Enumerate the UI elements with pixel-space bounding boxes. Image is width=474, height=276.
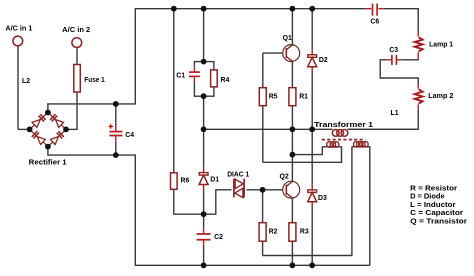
svg-text:Q2: Q2: [280, 173, 289, 180]
node Q1-Q2 / secondary: [290, 152, 296, 158]
label A/C in 2: [62, 27, 90, 34]
wire: [322, 146, 341, 148]
svg-text:Lamp 2: Lamp 2: [428, 93, 453, 100]
wire: [194, 61, 203, 63]
node bridge left: [27, 126, 33, 132]
wire: [292, 128, 332, 130]
wire: [204, 213, 216, 215]
svg-text:R4: R4: [221, 77, 230, 84]
wire: [204, 95, 214, 97]
wire: [47, 154, 136, 156]
label legend L: [410, 202, 456, 209]
rectifier BR1 diode bottom-left: [30, 129, 48, 146]
wire: [291, 9, 293, 45]
wire: [402, 59, 419, 61]
wire: [292, 154, 323, 156]
node C4 bottom: [113, 152, 119, 158]
svg-text:D3: D3: [318, 195, 327, 202]
label Transformer 1: [314, 122, 373, 129]
svg-text:R3: R3: [300, 228, 309, 235]
wire: [369, 146, 371, 265]
wire: [115, 104, 117, 126]
wire: [417, 8, 419, 31]
wire: [311, 49, 313, 55]
wire: [417, 83, 419, 88]
wire: [263, 52, 287, 54]
wire: [291, 241, 293, 265]
wire: [193, 61, 195, 67]
wire: [311, 67, 313, 73]
wire: [115, 126, 117, 131]
wire: [173, 9, 175, 173]
wire: [193, 67, 195, 72]
label R2: [269, 228, 278, 235]
fuse F1: [74, 65, 81, 93]
terminal A/C in 1: [13, 36, 23, 46]
svg-text:D = Diode: D = Diode: [410, 194, 445, 201]
svg-text:L1: L1: [391, 110, 399, 117]
svg-text:Q = Transistor: Q = Transistor: [410, 218, 467, 225]
wire: [17, 46, 19, 129]
wire: [352, 146, 370, 148]
rectifier BR1 diode bottom-right: [48, 129, 66, 146]
capacitor C1: [189, 72, 200, 76]
label R5: [269, 94, 278, 101]
label C6: [370, 19, 379, 26]
lamp Lamp2: [415, 89, 423, 103]
transformer T1 secondary coil right: [354, 142, 369, 147]
label C3: [389, 47, 398, 54]
label R3: [300, 228, 309, 235]
transistor Q2: [283, 181, 300, 199]
capacitor C2: [197, 234, 211, 240]
svg-text:C2: C2: [214, 234, 223, 241]
wire: [213, 87, 215, 97]
resistor R1: [289, 88, 296, 106]
label C4: [125, 132, 134, 139]
wire: [173, 189, 175, 214]
label D1: [210, 177, 219, 184]
svg-text:A/C in 2: A/C in 2: [62, 27, 90, 34]
label legend Q: [410, 218, 467, 225]
node D1/R6/C2/DIAC: [201, 211, 207, 217]
diac DIAC1: [234, 179, 244, 198]
svg-text:L2: L2: [22, 78, 30, 85]
wire: [417, 31, 419, 36]
label Lamp 1: [429, 41, 453, 48]
svg-text:A/C in 1: A/C in 1: [5, 26, 32, 33]
label L1: [391, 110, 399, 117]
label Rectifier 1: [29, 160, 67, 167]
wire: [384, 8, 418, 10]
wire: [204, 61, 214, 63]
rectifier BR1 diode top-right: [48, 113, 66, 130]
label Q2: [280, 173, 289, 180]
wire: [341, 146, 343, 163]
node bottom rail / R3: [290, 262, 296, 268]
label L2: [22, 78, 30, 85]
node top rail / Q1 collector: [290, 6, 296, 12]
wire: [380, 59, 386, 61]
node bridge bottom: [45, 144, 51, 150]
label R4: [221, 77, 230, 84]
wire: [417, 78, 419, 83]
svg-text:Fuse 1: Fuse 1: [84, 77, 105, 84]
transistor Q1: [283, 44, 300, 62]
node bridge right: [63, 126, 69, 132]
wire: [47, 103, 49, 112]
label D3: [318, 195, 327, 202]
wire: [203, 191, 205, 215]
svg-text:D1: D1: [210, 177, 219, 184]
label legend R: [410, 186, 457, 193]
rectifier BR1 diode top-left: [30, 113, 48, 130]
capacitor C6: [366, 4, 384, 16]
label C2: [214, 234, 223, 241]
wire: [215, 190, 217, 215]
wire: [115, 142, 117, 155]
wire: [291, 106, 293, 130]
resistor R2: [259, 223, 266, 242]
wire: [203, 96, 205, 167]
label C1: [176, 72, 185, 79]
wire: [311, 129, 313, 184]
wire: [203, 228, 205, 233]
resistor R3: [289, 223, 296, 242]
node bottom rail / C2: [201, 262, 207, 268]
wire: [173, 213, 203, 215]
svg-text:Transformer 1: Transformer 1: [314, 122, 373, 129]
capacitor C3: [392, 55, 397, 65]
resistor R6: [171, 173, 178, 190]
wire: [193, 77, 195, 82]
svg-text:R5: R5: [269, 94, 278, 101]
label D2: [319, 57, 328, 64]
wire: [203, 214, 205, 228]
wire: [291, 61, 293, 87]
wire: [263, 161, 342, 163]
wire: [311, 202, 313, 208]
svg-text:C1: C1: [176, 72, 185, 79]
wire: [262, 241, 264, 255]
wire: [262, 190, 264, 223]
wire: [135, 8, 365, 10]
node D1 column / primary: [201, 126, 207, 132]
wire: [387, 59, 392, 61]
wire: [115, 136, 117, 142]
node C1R4 top: [201, 59, 207, 65]
svg-text:D2: D2: [319, 57, 328, 64]
wire: [380, 77, 419, 79]
wire: [262, 53, 264, 88]
wire: [194, 95, 203, 97]
diode D3: [308, 190, 317, 202]
transformer T1 core: [322, 139, 366, 141]
wire: [204, 128, 293, 130]
wire: [48, 103, 136, 105]
svg-text:C6: C6: [370, 19, 379, 26]
node C1R4 bottom: [201, 93, 207, 99]
wire: [291, 129, 293, 154]
wire: [351, 146, 353, 256]
svg-text:Rectifier 1: Rectifier 1: [29, 160, 67, 167]
node bottom rail / D3: [309, 262, 315, 268]
wire: [311, 208, 313, 265]
svg-text:L = Inductor: L = Inductor: [410, 202, 456, 209]
label A/C in 1: [5, 26, 32, 33]
wire: [321, 146, 323, 154]
label R6: [181, 178, 190, 185]
resistor R5: [259, 88, 266, 106]
svg-text:Lamp 1: Lamp 1: [429, 41, 453, 48]
label Fuse 1: [84, 77, 105, 84]
label DIAC 1: [227, 172, 249, 179]
capacitor C4: [109, 124, 123, 135]
wire: [348, 128, 419, 130]
wire: [134, 8, 136, 104]
wire: [379, 59, 381, 78]
node top rail / R6: [171, 6, 177, 12]
lamp Lamp1: [415, 37, 423, 51]
wire: [18, 128, 30, 130]
wire: [203, 246, 205, 266]
terminal A/C in 2: [72, 38, 82, 48]
diode D2: [308, 55, 317, 67]
wire: [417, 52, 419, 60]
node bridge top: [45, 110, 51, 116]
svg-text:C4: C4: [125, 132, 134, 139]
wire: [76, 92, 78, 129]
wire: [348, 128, 419, 130]
wire: [135, 264, 370, 266]
wire: [215, 189, 231, 191]
wire: [311, 72, 313, 129]
wire: [417, 104, 419, 110]
wire: [203, 240, 205, 245]
wire: [47, 147, 49, 156]
diode D1: [199, 173, 208, 185]
wire: [76, 48, 78, 65]
wire: [213, 61, 215, 70]
svg-text:R = Resistor: R = Resistor: [410, 186, 457, 193]
svg-text:R2: R2: [269, 228, 278, 235]
wire: [311, 9, 313, 50]
label R1: [299, 94, 308, 101]
wire: [291, 155, 293, 182]
wire: [311, 184, 313, 190]
node primary / D2: [309, 126, 315, 132]
node DIAC/Q2 base/R2: [260, 187, 266, 193]
svg-text:Q1: Q1: [283, 35, 292, 42]
node C4 top: [113, 101, 119, 107]
transformer T1 primary coil: [332, 130, 348, 137]
svg-text:C3: C3: [389, 47, 398, 54]
wire: [262, 106, 264, 163]
label legend C: [410, 210, 463, 217]
wire: [247, 189, 286, 191]
wire: [66, 128, 78, 130]
wire: [263, 255, 352, 257]
node primary left: [290, 126, 296, 132]
wire: [417, 110, 419, 130]
label Lamp 2: [428, 93, 453, 100]
wire: [203, 9, 205, 62]
transformer T1 secondary coil left: [327, 142, 339, 148]
svg-text:R1: R1: [299, 94, 308, 101]
label Q1: [283, 35, 292, 42]
wire: [203, 167, 205, 173]
node top rail / D1 branch: [201, 6, 207, 12]
wire: [203, 185, 205, 191]
wire: [134, 154, 136, 265]
svg-text:C = Capacitor: C = Capacitor: [410, 210, 463, 217]
wire: [397, 59, 402, 61]
resistor R4: [211, 70, 218, 87]
label legend D: [410, 194, 445, 201]
svg-text:DIAC 1: DIAC 1: [227, 172, 249, 179]
wire: [193, 82, 195, 97]
svg-text:R6: R6: [181, 178, 190, 185]
node top rail / D2: [309, 6, 315, 12]
wire: [291, 198, 293, 223]
